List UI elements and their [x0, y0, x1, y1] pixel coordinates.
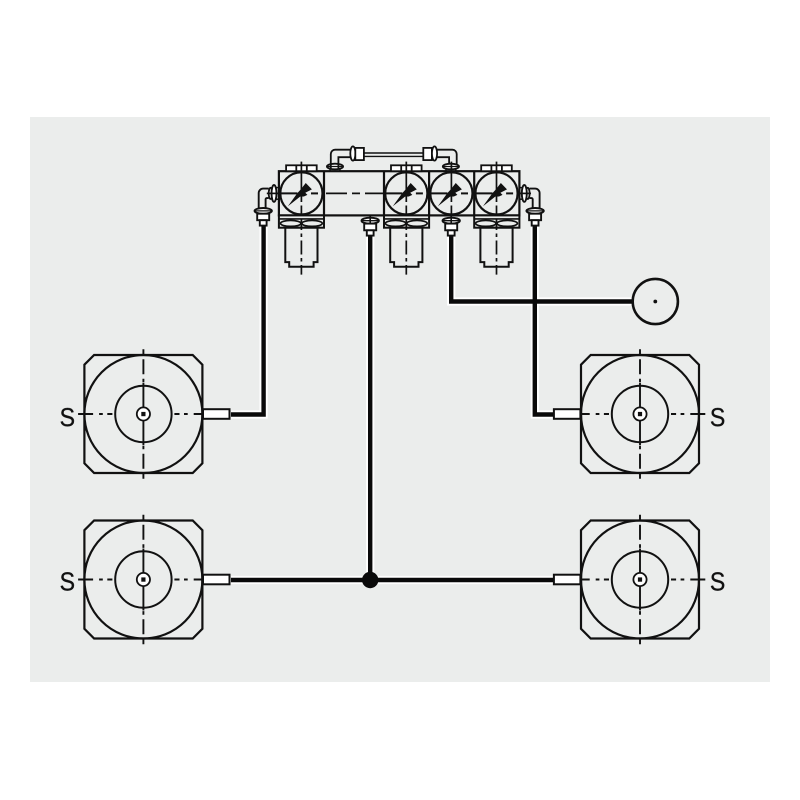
wire casing (white halo under tubes): [231, 223, 633, 580]
tube from junction up to manifold fitting: [368, 235, 372, 581]
centerline of gauge 3: [450, 162, 452, 216]
port fitting of lower-left: [203, 575, 230, 585]
filter bowl 2: [384, 215, 429, 266]
label S lower-left: [61, 572, 74, 590]
centerline of gauge 1: [300, 162, 302, 275]
pressure gauge 4: [475, 172, 517, 214]
bridge right union: [423, 146, 437, 160]
bridge right collar nut: [443, 164, 459, 172]
pressure gauge 2: [385, 172, 427, 214]
port fitting of upper-right: [554, 409, 581, 419]
pressure gauge 1: [280, 172, 322, 214]
mounting cap above gauge 2: [391, 165, 422, 171]
tube between lower actuators: [231, 578, 554, 582]
bridge tube: [364, 153, 423, 156]
tube from manifold right elbow to upper-right actuator: [535, 223, 554, 415]
suction gripper lower-right: [575, 515, 706, 645]
suction gripper upper-right: [575, 349, 706, 479]
manifold right elbow fitting: [519, 185, 543, 226]
tube from gauge-3 fitting to pilot circle: [451, 235, 633, 302]
manifold horizontal centerline: [267, 192, 531, 194]
port fitting of upper-left: [203, 409, 230, 419]
junction dot: [362, 572, 378, 588]
tube from manifold left elbow to upper-left actuator: [231, 223, 264, 415]
filter bowl 1: [279, 215, 324, 266]
manifold body: [279, 171, 520, 215]
port fitting of lower-right: [554, 575, 581, 585]
centerline of gauge 2: [405, 162, 407, 275]
mounting cap above gauge 3: [481, 165, 512, 171]
bridge right elbow: [437, 150, 457, 169]
background panel: [30, 117, 770, 682]
filter bowl 4: [474, 215, 519, 266]
pressure gauge 3: [430, 172, 472, 214]
mounting cap above gauge 1: [286, 165, 317, 171]
gauge-3 bottom fitting: [443, 215, 460, 235]
centerline of gauge 4: [496, 162, 498, 275]
label S lower-right: [711, 572, 724, 590]
manifold left elbow fitting: [255, 185, 279, 226]
label S upper-right: [711, 408, 724, 426]
suction gripper upper-left: [78, 349, 209, 479]
suction gripper lower-left: [78, 515, 209, 645]
bridge left collar nut: [327, 164, 343, 172]
label S upper-left: [61, 408, 74, 426]
pilot port circle: [633, 279, 678, 324]
bridge left union: [350, 146, 364, 160]
manifold bottom fitting (junction line): [362, 215, 379, 235]
bridge left elbow: [331, 150, 351, 169]
